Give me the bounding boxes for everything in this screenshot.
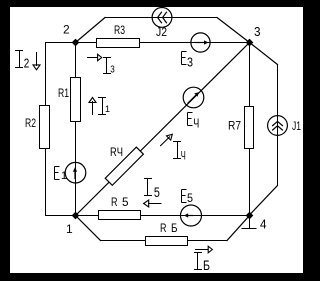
current label I5 (I5 + arrow left) crisp strokes [145,179,162,204]
voltage source E1 [65,162,86,183]
svg-text:R7: R7 [228,121,241,133]
arrowhead of I6 (right, open) [208,246,212,253]
svg-text:1: 1 [66,222,73,236]
arrowhead of I1 (up, open) [89,98,96,103]
current label I6 (arrow right + I6) crisp strokes [195,250,208,270]
wire top branch horizontal through J2 [105,17,217,19]
label R7 [228,121,241,133]
label J1 [292,121,301,133]
subscript of I4 [181,149,186,163]
resistor R6 [146,237,188,246]
svg-text:3: 3 [110,65,115,76]
resistor R2 [40,106,50,149]
label R2 [25,118,36,130]
label J2 [156,27,167,39]
svg-text:4: 4 [260,217,267,232]
wire middle horizontal node2-node3 (through R3, E3) [76,42,250,44]
voltage source E5 [181,205,202,226]
wire diagonal R6 branch to node4 [227,216,250,241]
wire R7 rail node3-node4 [249,43,251,216]
svg-text:3: 3 [254,24,261,39]
svg-text:R1: R1 [58,88,69,100]
subscript of I2 [24,56,30,71]
wire center rail node2-node1 (through R1, E1) [75,43,77,216]
wire left rail (node2 to node1 via R2) [46,43,76,216]
label E4 [188,113,200,131]
label R3 [114,25,125,37]
wire diagonal node1 to R6 branch [76,216,101,241]
svg-text:5: 5 [154,184,160,200]
svg-text:2: 2 [63,23,70,37]
node 1 [72,212,80,220]
node 2 [72,39,80,47]
arrow shaft and head of I4 (up-right, open) [161,134,173,145]
voltage source E3 [191,33,210,52]
svg-text:Б: Б [171,223,178,235]
subscript of I6 [203,257,210,273]
svg-text:R3: R3 [114,25,125,37]
node label 1 [66,222,73,236]
subscript of I1 [105,104,110,114]
label R4 [110,147,123,159]
arrowhead of I5 (left, open) [144,200,149,207]
node label 3 [254,24,261,39]
node 3 [246,39,254,47]
subscript of I3 [110,65,115,76]
resistor R4 (rotated 45deg on diagonal) [105,147,143,185]
wire diagonal top branch to node3 [217,18,250,43]
resistor R5 [99,211,141,220]
resistor R1 [71,78,81,122]
svg-text:J2: J2 [156,27,167,39]
svg-text:Ч: Ч [193,116,199,131]
label E1 [55,167,68,183]
wire diagonal J1 branch to node4 [249,186,278,216]
arrowhead of I2 (down, open) [33,65,40,70]
svg-text:5: 5 [187,191,193,205]
wire bottom horizontal node1-node4 (through R5, E5) [76,215,250,217]
current label I4 (I4 bars) crisp strokes [174,142,181,159]
svg-text:Б: Б [203,257,210,273]
ground symbol at node 4 [242,216,256,229]
svg-text:2: 2 [24,56,30,71]
current label I3 (arrow right + I3) crisp strokes [88,58,111,74]
current label I1 (arrow up + I1) crisp strokes [93,98,106,115]
node 4 [246,212,254,220]
svg-text:RЧ: RЧ [110,147,123,159]
svg-text:R: R [160,223,167,235]
subscript of I5 [154,184,160,200]
wire J1 branch vertical [277,65,279,186]
node label 2 [63,23,70,37]
wire main diagonal node1-node3 (through R4, E4) [76,43,250,216]
label R5 [111,197,129,209]
wire diagonal node2 to top branch [76,18,106,43]
label R1 [58,88,69,100]
wire bottom R6 branch horizontal [101,240,228,242]
wire diagonal node3 to J1 branch [250,43,278,65]
svg-text:1: 1 [105,104,110,114]
svg-text:J1: J1 [292,121,301,133]
label E5 [182,190,194,206]
resistor R3 [97,39,140,48]
current source J2 [152,8,172,28]
svg-text:1: 1 [61,170,67,182]
svg-text:Ч: Ч [181,149,186,163]
svg-text:3: 3 [187,55,193,70]
svg-text:R: R [111,197,118,209]
label R6 [160,223,178,235]
node label 4 [260,217,267,232]
arrowhead of I3 (right, open) [98,54,102,60]
resistor R7 [245,107,254,149]
current label I2 (I2 + arrow down) crisp strokes [16,51,37,68]
svg-text:R2: R2 [25,118,36,130]
svg-text:5: 5 [122,197,129,209]
label E3 [182,52,194,70]
voltage source E4 [183,87,204,108]
current source J1 [268,116,288,136]
